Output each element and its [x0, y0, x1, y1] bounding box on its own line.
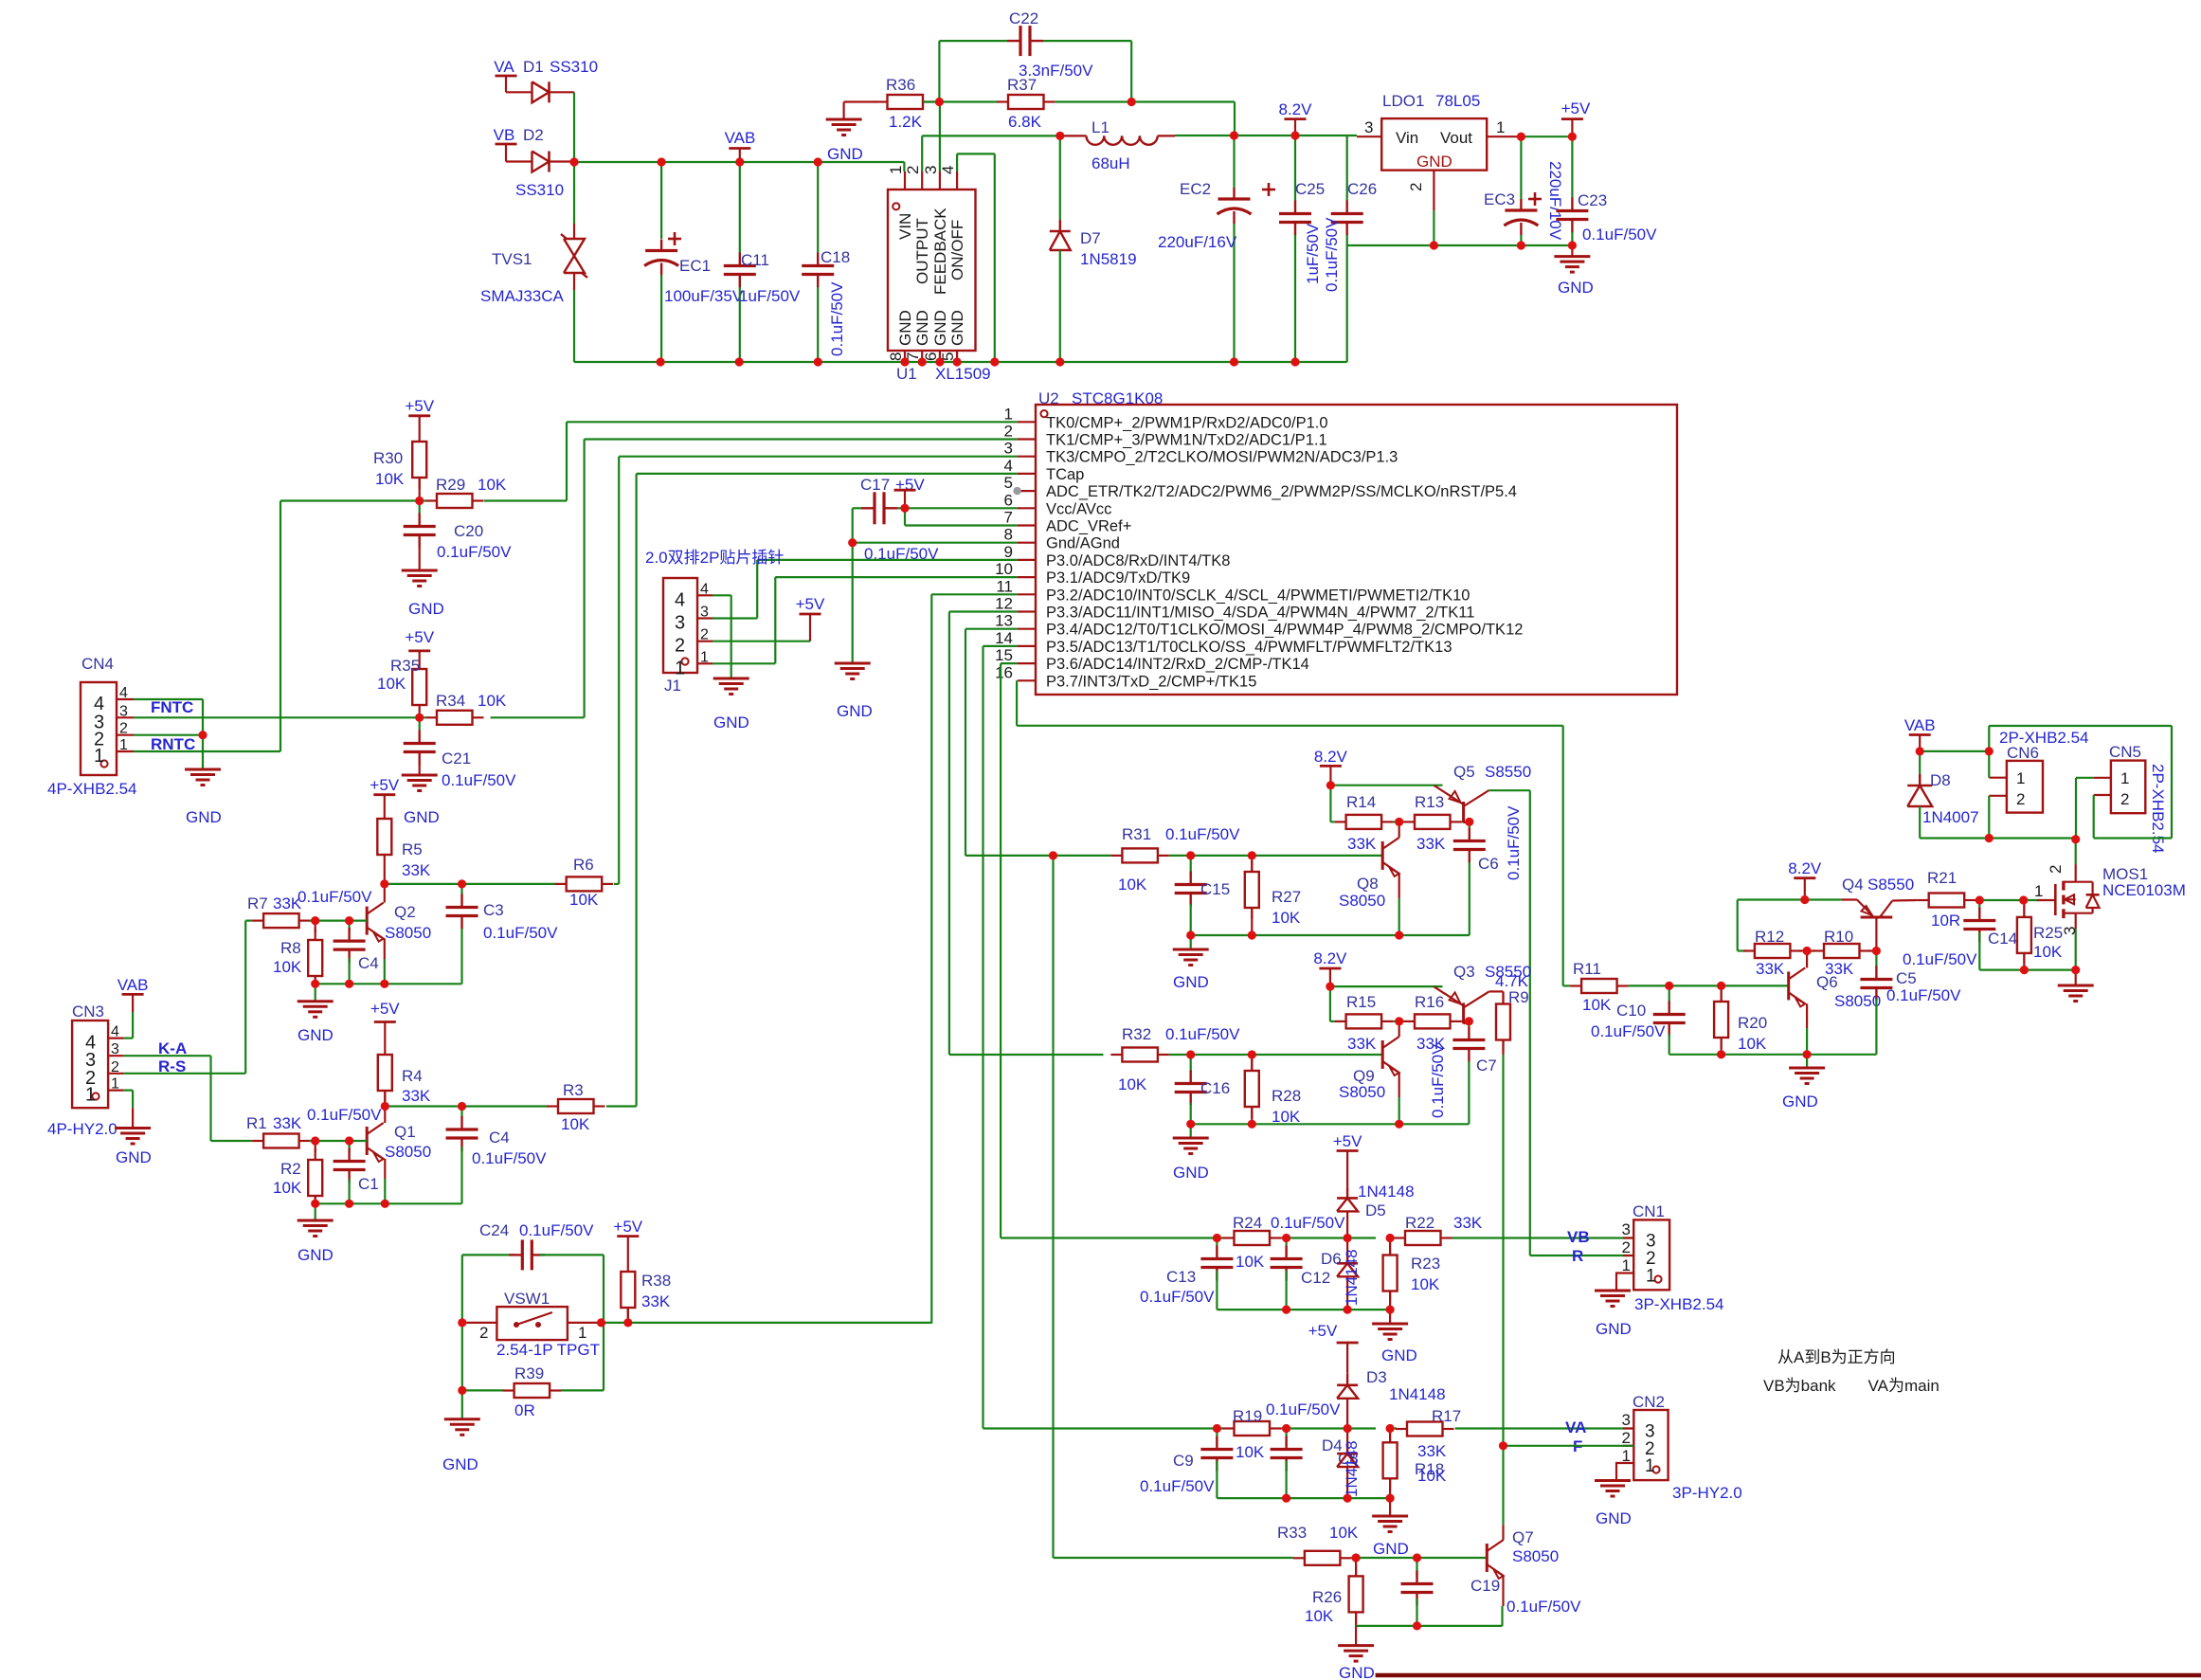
connector CN4 4P-XHB2.54: [81, 682, 117, 775]
svg-text:R39: R39: [514, 1364, 544, 1382]
resistor R33 10K: [1293, 1557, 1305, 1559]
wire pin11 to VSW1: [931, 593, 1017, 595]
svg-text:0.1uF/50V: 0.1uF/50V: [483, 924, 558, 942]
svg-text:1: 1: [119, 737, 128, 753]
svg-text:1: 1: [2120, 769, 2129, 787]
LDO1 78L05: [1381, 118, 1487, 171]
junction at 1367,143: [1290, 131, 1299, 139]
svg-text:33K: 33K: [641, 1292, 671, 1310]
ground at R18: [1389, 1498, 1391, 1516]
wire pin4 ON/OFF to GND rail: [956, 154, 958, 172]
resistor R21 10R: [1892, 899, 1917, 902]
svg-text:R25: R25: [2033, 924, 2063, 942]
svg-text:S8550: S8550: [1867, 876, 1914, 894]
junction at 1477,1186: [1395, 1120, 1403, 1129]
resistor R19 10K: [1223, 1427, 1235, 1429]
wire C24 left rail: [461, 1255, 463, 1418]
svg-text:3P-HY2.0: 3P-HY2.0: [1672, 1484, 1742, 1502]
ground LDO section: [1571, 245, 1573, 257]
svg-text:4: 4: [1004, 457, 1013, 475]
svg-text:C3: C3: [483, 901, 504, 919]
resistor R32 10K: [1110, 1054, 1122, 1056]
junction at 2191,886: [2071, 835, 2080, 843]
svg-text:P3.5/ADC13/T1/T0CLKO/SS_4/PWMF: P3.5/ADC13/T1/T0CLKO/SS_4/PWMFLT/PWMFLT2…: [1046, 639, 1452, 656]
wire CN4 pin4/pin2 RNTC: [134, 698, 203, 700]
svg-text:+5V: +5V: [1561, 99, 1591, 117]
U2 pin 7: [1018, 524, 1036, 526]
junction at 214,776: [198, 731, 207, 739]
svg-text:R3: R3: [563, 1081, 584, 1099]
wire pin6 Vcc: [905, 507, 1018, 509]
svg-text:XL1509: XL1509: [935, 365, 991, 383]
svg-text:C24: C24: [479, 1221, 509, 1239]
junction at 2099,884: [1985, 834, 1994, 842]
svg-text:L1: L1: [1091, 118, 1110, 136]
svg-text:10K: 10K: [1417, 1467, 1447, 1485]
MCU U2 STC8G1K08: [1036, 405, 1677, 695]
svg-text:33K: 33K: [1416, 835, 1446, 853]
svg-text:LDO1: LDO1: [1382, 92, 1424, 110]
wire F to CN2 pin2: [1504, 1445, 1634, 1447]
switch VSW1 2.54-1P TPGT: [462, 1322, 497, 1324]
svg-text:ADC_ETR/TK2/T2/ADC2/PWM6_2/PWM: ADC_ETR/TK2/T2/ADC2/PWM6_2/PWM2P/SS/MCLK…: [1046, 483, 1517, 500]
svg-text:P3.7/INT3/TxD_2/CMP+/TK15: P3.7/INT3/TxD_2/CMP+/TK15: [1046, 673, 1256, 690]
svg-text:2: 2: [1622, 1429, 1631, 1447]
svg-text:1: 1: [887, 166, 905, 174]
svg-text:68uH: 68uH: [1091, 154, 1130, 172]
junction at 780,382: [735, 357, 744, 366]
net port +5V at C23: [1561, 117, 1583, 120]
svg-text:6: 6: [1004, 491, 1013, 509]
svg-text:3: 3: [2061, 927, 2079, 935]
junction at 1550,1078: [1465, 1017, 1473, 1025]
svg-text:1.2K: 1.2K: [889, 113, 923, 131]
wire pin13 to R31 R33 trunk: [965, 628, 1018, 630]
svg-text:1N4007: 1N4007: [1922, 808, 1979, 826]
diode D2 SS310: [506, 160, 532, 162]
junction at 1404,829: [1326, 781, 1335, 789]
svg-text:1uF/50V: 1uF/50V: [739, 287, 801, 305]
capacitor C17 0.1uF/50V: [861, 507, 875, 509]
node VSW1 output: [603, 1255, 604, 1390]
svg-text:VSW1: VSW1: [504, 1290, 550, 1308]
svg-text:13: 13: [995, 612, 1013, 630]
wire pin2 OUTPUT to L1: [921, 135, 923, 172]
svg-text:CN1: CN1: [1633, 1202, 1665, 1220]
junction at 406,1270: [381, 1200, 389, 1208]
capacitor C19: [1416, 1558, 1417, 1578]
junction at 1404,1041: [1326, 983, 1334, 991]
svg-text:GND: GND: [1416, 153, 1452, 171]
svg-text:Q8: Q8: [1357, 875, 1379, 893]
capacitor C20 0.1uF/50V: [419, 501, 421, 515]
resistor R35 10K: [419, 658, 421, 669]
resistor R34 10K: [425, 716, 437, 718]
svg-text:0.1uF/50V: 0.1uF/50V: [1140, 1288, 1215, 1306]
VB network bottom rail: [1217, 1309, 1390, 1310]
svg-text:GND: GND: [1381, 1346, 1417, 1364]
wire CN4 pin3 FNTC to R34 node: [134, 716, 426, 718]
svg-text:R28: R28: [1272, 1087, 1301, 1105]
svg-text:C9: C9: [1173, 1452, 1194, 1470]
capacitor C9: [1216, 1429, 1218, 1447]
svg-text:GND: GND: [931, 310, 949, 346]
svg-text:Vcc/AVcc: Vcc/AVcc: [1046, 500, 1111, 517]
diode D8 1N4007: [1919, 751, 1921, 786]
diode D5 1N4148: [1346, 1186, 1348, 1198]
svg-text:1: 1: [111, 1076, 119, 1093]
svg-text:5: 5: [1004, 474, 1013, 492]
junction at 1467,1306: [1386, 1234, 1395, 1242]
junction at 1050,382: [990, 357, 999, 366]
svg-text:10K: 10K: [1738, 1035, 1767, 1053]
junction at 900,573: [848, 538, 857, 547]
svg-text:CN4: CN4: [81, 655, 114, 673]
svg-text:1N4148: 1N4148: [1389, 1385, 1446, 1403]
svg-text:R15: R15: [1346, 993, 1376, 1011]
node D5/D6: [1330, 1237, 1376, 1238]
svg-text:100uF/35V: 100uF/35V: [664, 287, 744, 305]
svg-text:0R: 0R: [514, 1401, 535, 1419]
junction at 369,972: [345, 916, 353, 925]
connector CN3 4P-HY2.0: [72, 1021, 108, 1108]
resistor R18 10K: [1389, 1429, 1391, 1443]
svg-text:R10: R10: [1824, 928, 1853, 946]
svg-text:NCE0103M: NCE0103M: [2102, 881, 2186, 899]
wire LDO pin3: [1357, 135, 1381, 137]
transistor Q3 S8550: [1462, 1003, 1465, 1023]
svg-text:+5V: +5V: [370, 1000, 400, 1018]
svg-text:TVS1: TVS1: [492, 250, 532, 268]
svg-text:GND: GND: [837, 702, 873, 720]
junction at 697,382: [657, 357, 665, 366]
ground at C17: [852, 543, 854, 663]
svg-text:Q4: Q4: [1842, 876, 1864, 894]
svg-text:10K: 10K: [377, 675, 406, 693]
junction at 2191,1024: [2071, 966, 2080, 974]
svg-text:2: 2: [2120, 790, 2129, 808]
svg-text:0.1uF/50V: 0.1uF/50V: [1140, 1477, 1215, 1495]
svg-text:C15: C15: [1200, 880, 1230, 898]
svg-text:33K: 33K: [1756, 960, 1785, 978]
svg-text:1N4148: 1N4148: [1343, 1249, 1361, 1306]
net port 8.2V: [1285, 117, 1307, 120]
connector CN6 2P-XHB2.54: [2007, 761, 2043, 813]
wire R31 to Q8 base: [1169, 855, 1382, 857]
wire pin15 to VB network: [1001, 662, 1018, 664]
svg-text:10K: 10K: [478, 692, 507, 710]
U2 pin 12: [1018, 610, 1036, 612]
resistor R28 10K: [1251, 1055, 1253, 1071]
wire K-A from CN3 pin3: [123, 1055, 210, 1057]
junction at 1477,867: [1395, 818, 1403, 826]
svg-text:VAB: VAB: [117, 976, 149, 994]
svg-text:33K: 33K: [1417, 1442, 1447, 1460]
svg-text:3: 3: [1622, 1411, 1631, 1429]
svg-text:TK3/CMPO_2/T2CLKO/MOSI/PWM2N/A: TK3/CMPO_2/T2CLKO/MOSI/PWM2N/ADC3/P1.3: [1046, 449, 1398, 466]
wire CN3 pin1 to GND: [123, 1089, 133, 1091]
svg-text:2: 2: [2047, 865, 2065, 874]
wire J1 pin4 to GND: [713, 594, 731, 596]
wire base line Q2: [309, 919, 367, 921]
svg-text:3P-XHB2.54: 3P-XHB2.54: [1634, 1295, 1724, 1313]
svg-text:J1: J1: [664, 677, 681, 695]
junction at 1358,1306: [1282, 1234, 1290, 1242]
electrolytic capacitor EC1: [660, 162, 662, 239]
junction at 333,972: [311, 916, 319, 925]
wire pin9 to J1 pin3: [757, 559, 1017, 561]
junction at 1907,1113: [1803, 1050, 1812, 1058]
svg-text:OUTPUT: OUTPUT: [913, 218, 931, 284]
svg-text:10K: 10K: [561, 1115, 590, 1133]
wire pin1 to R29: [567, 421, 1018, 423]
svg-text:2: 2: [1407, 183, 1425, 191]
svg-text:C17: C17: [860, 476, 890, 494]
svg-text:P3.1/ADC9/TxD/TK9: P3.1/ADC9/TxD/TK9: [1046, 569, 1190, 587]
resistor R17 33K: [1390, 1427, 1397, 1429]
svg-text:EC2: EC2: [1180, 180, 1211, 198]
Q1 emitter rail: [316, 1202, 462, 1204]
svg-text:C11: C11: [741, 251, 769, 269]
svg-text:VB为bank VA为main: VB为bank VA为main: [1763, 1377, 1939, 1395]
svg-text:C23: C23: [1578, 191, 1607, 209]
svg-text:EC1: EC1: [679, 257, 711, 275]
junction at 1496,1716: [1413, 1621, 1421, 1630]
wire pin8 Gnd: [853, 542, 1018, 544]
svg-text:RNTC: RNTC: [151, 735, 195, 753]
resistor R29 10K: [425, 499, 437, 501]
svg-text:P3.0/ADC8/RxD/INT4/TK8: P3.0/ADC8/RxD/INT4/TK8: [1046, 552, 1230, 569]
wire pin3 FEEDBACK: [939, 102, 941, 172]
svg-text:1: 1: [1496, 118, 1505, 136]
net port +5V at R4: [374, 1021, 396, 1023]
junction at 955,536: [900, 504, 909, 513]
resistor R3 10K: [547, 1105, 558, 1107]
svg-text:10K: 10K: [1272, 909, 1301, 927]
svg-text:Q5: Q5: [1453, 763, 1475, 781]
svg-text:R20: R20: [1738, 1014, 1767, 1032]
net port +5V at C17: [894, 489, 916, 492]
junction at 1905,950: [1800, 895, 1809, 904]
svg-text:C10: C10: [1616, 1002, 1646, 1020]
capacitor C11: [739, 162, 741, 253]
net port +5V above D5: [1337, 1149, 1359, 1152]
svg-text:R19: R19: [1233, 1407, 1262, 1425]
svg-text:S8050: S8050: [1512, 1547, 1559, 1565]
U2 pin 10: [1018, 576, 1036, 578]
svg-text:CN2: CN2: [1633, 1393, 1665, 1411]
junction at 992,382: [935, 357, 944, 366]
svg-text:4P-HY2.0: 4P-HY2.0: [47, 1120, 117, 1138]
U2 pin 15: [1018, 662, 1036, 664]
junction at 333,1038: [311, 980, 319, 988]
svg-text:11: 11: [996, 577, 1013, 595]
svg-text:10K: 10K: [1329, 1524, 1359, 1542]
junction at 1422,1508: [1344, 1424, 1352, 1433]
svg-text:2.54-1P TPGT: 2.54-1P TPGT: [496, 1341, 600, 1359]
svg-text:GND: GND: [896, 310, 914, 346]
wire R7 to R-S: [245, 919, 252, 921]
node C12: [1281, 1237, 1330, 1238]
svg-text:+5V: +5V: [796, 595, 825, 613]
Q9 emitter rail: [1191, 1123, 1470, 1125]
svg-text:1: 1: [700, 649, 709, 665]
junction at 991,108: [935, 98, 944, 106]
ground at VSW rail: [444, 1418, 480, 1420]
svg-text:R27: R27: [1272, 888, 1301, 906]
junction at 863,382: [814, 357, 822, 366]
resistor R20 10K: [1720, 985, 1722, 1002]
net port VAB: [729, 147, 750, 150]
wire R22 to CN1 pin3 VB: [1452, 1237, 1634, 1238]
wire VAB to CN6: [1920, 750, 1989, 752]
junction at 2136,1024: [2020, 966, 2029, 974]
net port +5V at R30: [408, 414, 430, 417]
capacitor C22 3.3nF/50V: [938, 41, 940, 101]
junction at 333,1204: [311, 1136, 319, 1145]
ground at C15: [1190, 935, 1192, 949]
wire pin16 to R11: [1016, 680, 1018, 726]
svg-text:10K: 10K: [2033, 943, 2063, 961]
svg-text:从A到B为正方向: 从A到B为正方向: [1777, 1348, 1896, 1366]
wire R9 bottom F net: [1502, 1055, 1504, 1525]
svg-text:VB: VB: [1567, 1228, 1590, 1246]
svg-text:1uF/50V: 1uF/50V: [1304, 223, 1322, 284]
net port 8.2V at Q4: [1794, 876, 1815, 879]
svg-text:10K: 10K: [1118, 876, 1147, 894]
svg-text:R7: R7: [247, 894, 268, 912]
junction at 443,528: [415, 497, 424, 505]
svg-text:Q3: Q3: [1453, 963, 1475, 981]
junction at 1907,1004: [1803, 947, 1812, 955]
wire 8.2V to R12: [1738, 898, 1805, 900]
junction at 1302,382: [1230, 357, 1238, 366]
svg-text:0.1uF/50V: 0.1uF/50V: [1266, 1400, 1341, 1418]
svg-text:U1: U1: [896, 365, 917, 383]
net port VAB at D8: [1909, 733, 1931, 736]
svg-text:EC3: EC3: [1484, 190, 1515, 208]
svg-text:78L05: 78L05: [1435, 92, 1480, 110]
resistor R11 10K: [1570, 985, 1581, 986]
CN2 pin1 ground hook: [1616, 1463, 1633, 1481]
svg-text:C14: C14: [1988, 930, 2017, 948]
U2 pin 4: [1018, 473, 1036, 475]
resistor R8 10K: [315, 921, 316, 932]
svg-text:15: 15: [995, 646, 1013, 664]
svg-text:GND: GND: [713, 714, 749, 732]
wire J1 pin2 to +5V: [713, 641, 810, 642]
svg-text:2: 2: [2016, 790, 2025, 808]
svg-text:220uF/10V: 220uF/10V: [1546, 161, 1564, 241]
svg-text:VA: VA: [1565, 1418, 1586, 1436]
resistor R10 33K: [1813, 949, 1824, 951]
Q6 bottom rail: [1669, 1054, 1877, 1056]
svg-text:Vin: Vin: [1396, 129, 1418, 147]
wire R13 to C6 node: [1461, 821, 1470, 822]
wire 8.2V down to R14: [1329, 786, 1331, 822]
junction at 1119,382: [1055, 357, 1064, 366]
junction at 1659,144: [1568, 133, 1577, 141]
wire pin4 to R3: [637, 473, 1018, 475]
ground at R26: [1355, 1626, 1357, 1646]
junction at 1194,108: [1128, 98, 1136, 106]
junction at 698,171: [658, 157, 666, 166]
GND rail bottom of power input: [574, 361, 1347, 363]
U2 pin 14: [1018, 645, 1036, 647]
svg-text:0.1uF/50V: 0.1uF/50V: [1323, 217, 1341, 292]
node Q2 collector: [384, 866, 386, 884]
svg-text:0.1uF/50V: 0.1uF/50V: [298, 888, 372, 906]
svg-text:Q2: Q2: [394, 903, 416, 921]
junction at 1257,903: [1186, 851, 1195, 859]
junction at 1477,987: [1395, 930, 1403, 939]
svg-text:1N4148: 1N4148: [1343, 1440, 1361, 1497]
junction at 973,382: [918, 357, 927, 366]
resistor R5 33K: [384, 807, 386, 819]
capacitor C3 0.1uF/50V: [460, 884, 462, 894]
svg-text:R8: R8: [280, 939, 301, 957]
svg-text:1N4148: 1N4148: [1358, 1183, 1415, 1201]
junction at 1112,903: [1049, 851, 1057, 859]
svg-text:Q7: Q7: [1512, 1528, 1534, 1546]
svg-text:10K: 10K: [1118, 1075, 1147, 1093]
svg-text:12: 12: [995, 595, 1013, 613]
svg-text:C7: C7: [1476, 1057, 1497, 1075]
svg-text:GND: GND: [1596, 1509, 1632, 1527]
junction at 1321,1113: [1248, 1050, 1256, 1058]
svg-text:TCap: TCap: [1046, 466, 1084, 483]
junction at 1467,1382: [1386, 1306, 1395, 1314]
wire pin12 to R32: [949, 610, 1018, 612]
svg-text:1N5819: 1N5819: [1080, 250, 1137, 268]
junction at 1284,1508: [1213, 1424, 1221, 1433]
junction at 1980,1004: [1872, 947, 1881, 955]
net port +5V above D3: [1337, 1342, 1359, 1345]
junction at 1551,867: [1465, 818, 1473, 826]
resistor R36 1.2K: [876, 100, 888, 102]
junction at 488,1168: [458, 1102, 466, 1111]
connector J1 2.0 dual 2P header: [663, 578, 697, 673]
svg-text:R12: R12: [1755, 928, 1784, 946]
svg-text:GND: GND: [408, 600, 444, 618]
svg-text:R33: R33: [1277, 1524, 1307, 1542]
svg-text:2: 2: [1004, 423, 1013, 441]
svg-text:C18: C18: [821, 248, 850, 266]
svg-text:D1: D1: [523, 58, 544, 76]
svg-text:33K: 33K: [1347, 835, 1377, 853]
svg-text:C4: C4: [489, 1129, 510, 1147]
junction at 781,171: [735, 157, 744, 166]
junction at 369,1038: [345, 980, 353, 988]
svg-text:TK1/CMP+_3/PWM1N/TxD2/ADC1/P1.: TK1/CMP+_3/PWM1N/TxD2/ADC1/P1.1: [1046, 432, 1327, 449]
junction at 1119,143: [1055, 132, 1064, 140]
junction at 1284,1306: [1213, 1234, 1221, 1242]
svg-text:2: 2: [700, 627, 709, 643]
ground at R23: [1389, 1310, 1391, 1324]
svg-text:Vout: Vout: [1440, 129, 1472, 147]
svg-text:U2: U2: [1038, 389, 1059, 407]
capacitor C4 0.1uF/50V at Q2: [349, 921, 351, 932]
svg-text:GND: GND: [1558, 279, 1594, 297]
svg-text:33K: 33K: [1347, 1035, 1377, 1053]
junction at 1817,1113: [1717, 1050, 1725, 1058]
U2 pin 8: [1018, 542, 1036, 544]
svg-text:1: 1: [94, 746, 104, 767]
junction at 1367,382: [1290, 357, 1299, 366]
wire Q5 collector to CN1 R: [1489, 789, 1530, 791]
svg-text:0.1uF/50V: 0.1uF/50V: [1591, 1022, 1666, 1040]
MOS source rail: [1979, 968, 2075, 970]
